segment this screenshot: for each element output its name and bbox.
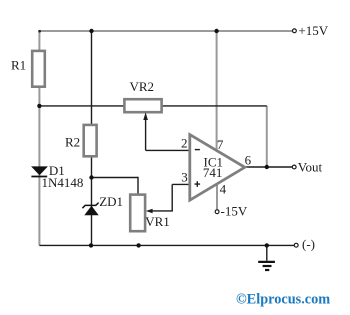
op-amp U1 triangle <box>190 135 245 201</box>
wire pin3 input <box>172 183 189 185</box>
resistor R2 <box>84 125 97 156</box>
svg-text:-15V: -15V <box>221 204 248 219</box>
wire top +15V rail <box>39 30 292 32</box>
potentiometer VR2 body <box>124 99 161 112</box>
wire left rail <box>38 30 40 245</box>
op-amp minus sign <box>195 149 200 151</box>
wire feedback horizontal through VR2 <box>39 105 266 107</box>
svg-text:VR2: VR2 <box>130 79 155 94</box>
potentiometer VR1 wiper arrow <box>146 209 153 214</box>
node top rail / pin7 <box>214 29 218 33</box>
node R2 bottom <box>89 175 93 179</box>
terminal +15V <box>293 29 297 33</box>
node bottom rail / VR1 <box>136 243 140 247</box>
resistor R1 <box>32 51 45 87</box>
node bottom rail / ground <box>265 243 269 247</box>
wire VR1 top lead <box>137 177 139 195</box>
svg-text:6: 6 <box>245 152 252 167</box>
svg-text:2: 2 <box>181 136 188 151</box>
wire VR2 wiper drop <box>145 116 147 150</box>
svg-text:VR1: VR1 <box>145 214 170 229</box>
wire pin2 input <box>146 149 190 151</box>
wire VR1 wiper horizontal <box>151 210 173 212</box>
svg-text:741: 741 <box>203 165 223 180</box>
wire middle vertical (R2/ZD1 branch) <box>91 31 93 245</box>
potentiometer VR1 body <box>130 195 145 232</box>
svg-text:R2: R2 <box>65 135 80 150</box>
terminal -15V <box>215 210 219 214</box>
wire pin7 supply drop <box>216 31 218 151</box>
node output / feedback <box>265 165 269 169</box>
wire pin4 supply drop <box>216 183 218 210</box>
wire bottom rail <box>39 244 294 246</box>
svg-text:4: 4 <box>220 182 227 197</box>
wire VR1 wiper riser <box>171 184 173 211</box>
svg-text:(-): (-) <box>302 236 315 251</box>
svg-text:7: 7 <box>217 137 224 152</box>
svg-text:1N4148: 1N4148 <box>42 175 84 190</box>
svg-text:R1: R1 <box>11 58 26 73</box>
potentiometer VR2 wiper arrow <box>143 112 148 120</box>
svg-text:©Elprocus.com: ©Elprocus.com <box>236 292 330 308</box>
wire R2/ZD1 node horizontal <box>92 177 139 179</box>
diode D1 <box>31 166 48 175</box>
ground <box>266 245 268 260</box>
svg-text:3: 3 <box>181 169 188 184</box>
terminal (-) <box>294 243 298 247</box>
node bottom rail / ZD1 <box>89 243 93 247</box>
node top-left corner <box>38 30 41 33</box>
wire op-amp output <box>245 166 292 168</box>
terminal Vout <box>292 165 296 169</box>
node top rail / middle branch <box>89 29 93 33</box>
svg-text:+15V: +15V <box>298 23 328 38</box>
zener diode ZD1 <box>84 206 98 216</box>
op-amp plus sign <box>195 181 201 187</box>
svg-text:Vout: Vout <box>298 159 323 174</box>
node left rail / feedback <box>37 104 41 108</box>
wire feedback vertical <box>266 106 268 167</box>
svg-text:ZD1: ZD1 <box>99 194 123 209</box>
